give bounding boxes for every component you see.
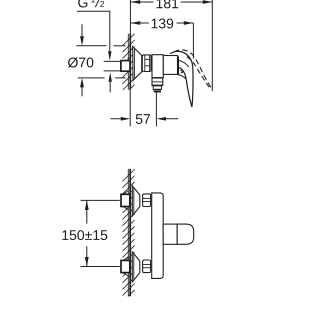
dimension 150 text bbox=[62, 230, 107, 240]
front view body slab bbox=[152, 193, 164, 279]
diameter 70 text bbox=[68, 57, 93, 67]
cartridge housing bbox=[163, 56, 177, 75]
mask below front view wall bbox=[120, 297, 137, 305]
handle cap front edge bbox=[177, 56, 179, 74]
dimension 139 line bbox=[131, 22, 194, 24]
dimension 139 extension line bbox=[192, 23, 194, 59]
upper connection collar bbox=[143, 194, 151, 207]
dimension 181 extension line bbox=[211, 0, 213, 91]
dimension 139 text bbox=[152, 19, 174, 29]
upper escutcheon cone bbox=[132, 186, 140, 216]
dimension 57 text bbox=[136, 114, 150, 124]
escutcheon cone bbox=[133, 47, 142, 81]
dimension 181 left arrow bbox=[131, 0, 141, 4]
dimension 150 bottom extension line bbox=[81, 266, 120, 268]
diameter 70 bottom arrow bbox=[80, 78, 84, 96]
G 1/2 leader line bbox=[77, 11, 110, 92]
mask above front view wall bbox=[120, 163, 137, 169]
dimension 57 right arrow bbox=[157, 117, 167, 121]
front view wall lines bbox=[128, 169, 130, 296]
G 1/2 upper arrow bbox=[108, 51, 111, 61]
lower escutcheon cone bbox=[132, 252, 140, 282]
dimension 181 line bbox=[131, 1, 213, 3]
outlet adapter bbox=[153, 86, 161, 89]
dimension 57 line bbox=[110, 118, 178, 120]
dimension 139 left arrow bbox=[131, 21, 141, 25]
lower inlet hex nut bbox=[121, 257, 130, 276]
handle cap bottom curve bbox=[178, 75, 186, 79]
dimension 181 right arrow bbox=[203, 0, 213, 4]
connection collar nut bbox=[142, 55, 151, 72]
dimension 57 extension line right bbox=[155, 92, 157, 126]
cartridge boss bbox=[163, 224, 177, 244]
lever raised position dashed lower bbox=[187, 57, 211, 89]
outlet thread bbox=[154, 89, 161, 92]
top view wall hatching bbox=[123, 34, 135, 97]
handle dome bbox=[177, 224, 194, 244]
shower outlet union nut bbox=[152, 78, 163, 86]
lever raised position dashed upper bbox=[174, 50, 212, 89]
dimension 181 text bbox=[157, 0, 179, 8]
dimension 150 top extension line bbox=[81, 199, 120, 201]
lower connection collar bbox=[143, 260, 151, 273]
dimension 139 right arrow bbox=[184, 21, 194, 25]
wall hex nut bbox=[121, 61, 130, 72]
G 1/2 label bbox=[78, 0, 104, 7]
dimension 150 bottom arrow bbox=[85, 257, 89, 267]
dimension 57 left arrow bbox=[121, 117, 131, 121]
diameter 70 top arrow bbox=[80, 24, 84, 46]
top view wall lines bbox=[128, 0, 130, 126]
diameter 70 extension lines bbox=[76, 46, 125, 78]
front view wall hatching bbox=[123, 169, 135, 302]
lever small mark bbox=[180, 70, 183, 73]
lever handle solid outline bbox=[170, 51, 193, 107]
dimension 150 line bbox=[86, 200, 88, 266]
dimension 150 top arrow bbox=[85, 200, 89, 210]
supply pipe bbox=[104, 61, 121, 71]
valve body bbox=[152, 55, 163, 78]
G 1/2 lower arrow bbox=[109, 72, 112, 82]
upper inlet hex nut bbox=[121, 191, 130, 210]
lever inner arc bbox=[178, 60, 189, 67]
